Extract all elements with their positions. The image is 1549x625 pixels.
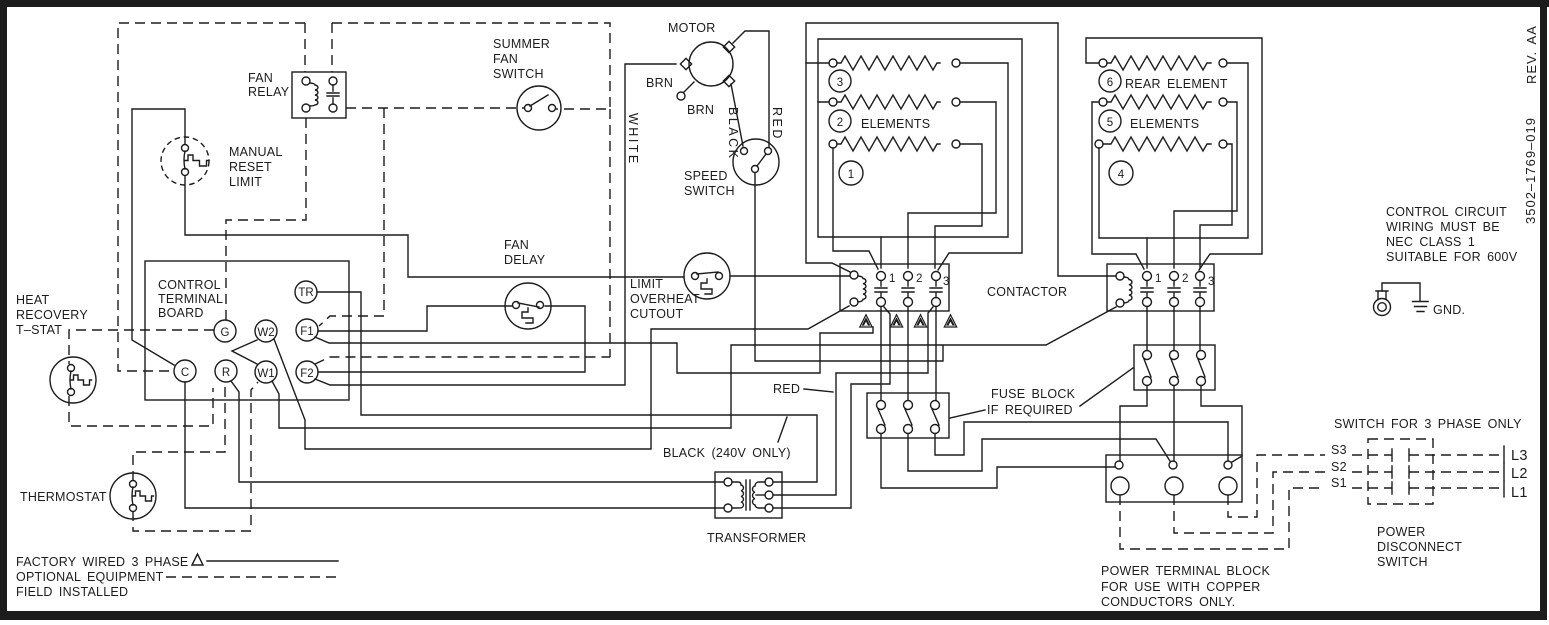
symbol factory wired triangles pole 2 (890, 315, 902, 327)
wire element 3 left stub (806, 62, 829, 64)
svg-text:RED: RED (773, 382, 800, 396)
svg-text:3502–1769–019: 3502–1769–019 (1523, 117, 1538, 224)
wire F2 lower WHITE riser to motor (315, 64, 676, 385)
wire F1 to fan delay left contact (318, 306, 512, 331)
svg-text:R: R (222, 367, 230, 379)
wire dashed power terminal 1 to S1 (1120, 488, 1392, 549)
svg-text:5: 5 (1107, 117, 1113, 129)
legend OPTIONAL EQUIPMENT (16, 570, 338, 584)
wire dashed power terminal 2 to S2 (1174, 472, 1392, 533)
svg-text:2: 2 (837, 117, 843, 129)
transformer T1 (707, 472, 806, 545)
label RED with leader (773, 382, 833, 396)
svg-text:F1: F1 (300, 326, 313, 338)
svg-text:TR: TR (298, 287, 313, 299)
svg-text:RED: RED (770, 107, 784, 141)
svg-text:SWITCH: SWITCH (493, 67, 544, 81)
wire W2 to contactor 1 coil bottom (274, 306, 849, 449)
terminal W2 (255, 320, 277, 342)
wire dashed switch to L3 (1409, 454, 1504, 456)
label element 1 (839, 161, 863, 185)
wire element 5 right to contactor 2 pole 2 (1174, 102, 1237, 268)
wire dashed switch to L1 (1409, 487, 1504, 489)
svg-text:SWITCH: SWITCH (684, 184, 735, 198)
svg-text:LIMIT: LIMIT (229, 175, 262, 189)
svg-text:1: 1 (889, 273, 895, 285)
thermostat HEAT RECOVERY T-STAT (16, 293, 96, 403)
label element 6 (1099, 70, 1121, 92)
svg-text:ELEMENTS: ELEMENTS (1130, 117, 1199, 131)
svg-text:CONTACTOR: CONTACTOR (987, 285, 1067, 299)
svg-text:2: 2 (1182, 273, 1188, 285)
svg-text:OVERHEAT: OVERHEAT (630, 292, 700, 306)
svg-text:WHITE: WHITE (626, 113, 640, 166)
svg-text:FOR USE WITH COPPER: FOR USE WITH COPPER (1101, 580, 1260, 594)
svg-text:CONTROL: CONTROL (158, 278, 221, 292)
svg-text:F2: F2 (300, 368, 313, 380)
wire element 4 right to contactor 2 pole 3 (1200, 144, 1232, 268)
svg-text:BRN: BRN (646, 76, 673, 90)
svg-text:GND.: GND. (1433, 303, 1465, 317)
svg-text:MANUAL: MANUAL (229, 145, 283, 159)
terminal F1 (296, 319, 318, 341)
svg-text:HEAT: HEAT (16, 293, 50, 307)
wire contactor 2 pole 3 to fuse block FB2 (1199, 307, 1201, 350)
wire contactor 1 pole 3 to fuse block FB1 (935, 307, 937, 400)
wire fuse block FB2 pole 2 to power terminal 2 (1173, 386, 1175, 461)
terminal G (214, 320, 236, 342)
wire fuse 3 to power terminal 3 (935, 422, 1228, 461)
svg-text:3: 3 (1208, 276, 1214, 288)
wire dashed F2 to summer fan switch rail (315, 357, 610, 364)
svg-text:CONTROL CIRCUIT: CONTROL CIRCUIT (1386, 205, 1507, 219)
wire dashed thermostat to terminal W1 (133, 382, 258, 531)
wire fuse block FB2 pole 3 to power terminal 3 (1201, 386, 1242, 462)
label FUSE BLOCK IF REQUIRED with leaders (950, 368, 1133, 418)
svg-text:2: 2 (916, 273, 922, 285)
wire TR to transformer secondary top via BLACK row (317, 292, 817, 482)
wire W1 to contactor 2 coil bottom (272, 307, 1116, 428)
svg-text:W2: W2 (257, 327, 274, 339)
wire F2 to fan delay right contact (318, 306, 585, 372)
wire fuse 1 to power terminal 1 (881, 434, 1115, 488)
wire element 2 left to pole 1 row (818, 63, 1008, 237)
terminal R (215, 360, 237, 382)
svg-text:SUITABLE FOR 600V: SUITABLE FOR 600V (1386, 250, 1518, 264)
wire manual reset limit top loop (132, 109, 185, 365)
svg-text:L1: L1 (1511, 485, 1528, 501)
wire element bank 1 outer loop to contactor coils (806, 23, 1116, 276)
resistor element 3 (829, 56, 960, 70)
svg-text:SWITCH: SWITCH (1377, 555, 1428, 569)
svg-text:TRANSFORMER: TRANSFORMER (707, 531, 806, 545)
svg-text:L2: L2 (1511, 466, 1528, 482)
wire element 6 loop to contactor 2 pole 3 (1086, 38, 1262, 270)
wire contactor 2 pole 1 to fuse block FB2 (1146, 307, 1148, 350)
wire dashed thermostat to terminal R (133, 382, 225, 481)
wire element bank 1 second loop to contactor 1 pole 2 (818, 39, 1022, 270)
svg-text:RECOVERY: RECOVERY (16, 308, 88, 322)
svg-text:WIRING MUST BE: WIRING MUST BE (1386, 220, 1500, 234)
wire dashed power terminal 3 to S3 (1228, 455, 1392, 517)
wire dashed heat recovery to terminal R (69, 388, 213, 426)
wire F1 lower to contactor 1 pole 1 bottom (315, 327, 873, 373)
wire dashed branch to terminal F1 (319, 108, 384, 326)
svg-text:S3: S3 (1331, 443, 1347, 457)
wire dashed switch to L2 (1409, 471, 1504, 473)
terminal W1 (255, 361, 277, 383)
svg-text:MOTOR: MOTOR (668, 21, 716, 35)
wire transformer secondary bottom to contactor 1 pole 1 (774, 307, 890, 508)
label element 2 (829, 110, 851, 132)
svg-text:SWITCH FOR 3 PHASE ONLY: SWITCH FOR 3 PHASE ONLY (1334, 417, 1522, 431)
resistor element 5 (1099, 95, 1227, 109)
wire R to transformer primary top (231, 381, 724, 482)
svg-text:OPTIONAL EQUIPMENT: OPTIONAL EQUIPMENT (16, 570, 164, 584)
contactor K2 (840, 264, 949, 311)
switch S2 MANUAL RESET LIMIT (161, 137, 283, 189)
ground symbol GND (1413, 302, 1466, 318)
wire BRN pigtail (646, 76, 714, 117)
wire element 1 left to contactor 1 pole 1 (833, 148, 878, 269)
svg-text:SPEED: SPEED (684, 169, 728, 183)
motor M1 (668, 21, 735, 87)
terminal L3 (1504, 446, 1528, 464)
relay K1 FAN RELAY (248, 71, 346, 118)
wire dashed fan relay bottom-right to summer fan switch left (346, 107, 524, 109)
terminal L2 (1504, 464, 1528, 482)
svg-text:FACTORY WIRED 3 PHASE: FACTORY WIRED 3 PHASE (16, 555, 189, 569)
wire dashed rail fan relay top-right to summer fan switch right (332, 23, 610, 109)
svg-text:FAN: FAN (493, 52, 518, 66)
terminal C (174, 360, 196, 382)
wire contactor 2 pole 1 riser (1146, 238, 1148, 268)
wire dashed riser to fan relay top-left pin (304, 23, 306, 72)
label element 5 (1099, 110, 1121, 132)
wire RED motor to speed switch (733, 31, 769, 147)
resistor element 4 (1095, 137, 1227, 151)
svg-text:G: G (221, 327, 230, 339)
svg-text:NEC CLASS 1: NEC CLASS 1 (1386, 235, 1475, 249)
wire element 1 right to contactor 1 pole 3 (935, 144, 982, 268)
thermostat THERMOSTAT (20, 473, 156, 519)
wire C to transformer primary bottom (185, 382, 724, 508)
svg-text:RESET: RESET (229, 160, 272, 174)
wire contactor 1 pole 1 riser (880, 237, 882, 268)
svg-text:CONDUCTORS ONLY.: CONDUCTORS ONLY. (1101, 595, 1235, 609)
wire contactor 2 pole 2 to fuse block FB2 (1173, 307, 1175, 350)
wire dashed riser summer fan switch rail down to F2 (609, 109, 611, 357)
label BLACK (240V ONLY) with leader (663, 417, 791, 460)
wire RED transformer tap to contactor 1 pole 3 (774, 307, 933, 495)
svg-text:3: 3 (837, 77, 843, 89)
resistor element 6 (1099, 56, 1227, 70)
svg-text:1: 1 (1155, 273, 1161, 285)
svg-text:1: 1 (848, 169, 854, 181)
switch S1 SUMMER FAN SWITCH (493, 37, 561, 130)
terminal L1 (1504, 481, 1528, 501)
wire dashed heat recovery to terminal G (69, 330, 214, 364)
svg-text:BLACK (240V ONLY): BLACK (240V ONLY) (663, 446, 791, 460)
power terminal block TB1 (1106, 455, 1242, 502)
switch S4 FAN DELAY (504, 238, 551, 329)
svg-text:FUSE BLOCK: FUSE BLOCK (991, 387, 1076, 401)
svg-text:DISCONNECT: DISCONNECT (1377, 540, 1462, 554)
wire element 5 left to contactor 2 pole 1 (1092, 102, 1144, 269)
legend FACTORY WIRED 3 PHASE (16, 554, 338, 569)
label element 3 (829, 70, 851, 92)
svg-text:FAN: FAN (504, 238, 529, 252)
wire BLACK motor to speed switch (731, 84, 743, 146)
wire manual reset limit to limit overheat cutout (185, 176, 684, 277)
svg-text:SUMMER: SUMMER (493, 37, 550, 51)
svg-text:FAN: FAN (248, 71, 273, 85)
wire dashed riser to fan relay top-right pin (331, 23, 333, 72)
terminal board CONTROL TERMINAL BOARD (145, 261, 349, 400)
wire element 2 right to contactor 1 pole 3 (908, 102, 996, 268)
contactor K3 (1107, 264, 1214, 311)
wire limit cutout to contactor 1 coil top (730, 275, 850, 277)
label CONTROL CIRCUIT note (1386, 205, 1518, 264)
wire fuse 2 to power terminal 2 (908, 434, 1170, 471)
symbol factory wired triangles pole 1 (860, 315, 872, 327)
svg-text:IF REQUIRED: IF REQUIRED (987, 403, 1073, 417)
svg-text:BLACK: BLACK (726, 107, 740, 161)
svg-text:RELAY: RELAY (248, 85, 290, 99)
fuse block FB1 (867, 393, 949, 438)
resistor element 1 (829, 137, 960, 151)
svg-text:S2: S2 (1331, 460, 1347, 474)
wire speed switch common to W1 row (755, 173, 943, 361)
label POWER TERMINAL BLOCK (1101, 564, 1270, 609)
ground lug (1374, 283, 1421, 316)
svg-text:POWER: POWER (1377, 525, 1425, 539)
wire contactor 1 pole 1 to fuse block FB1 (880, 307, 882, 400)
svg-text:TERMINAL: TERMINAL (158, 292, 223, 306)
svg-text:W1: W1 (257, 368, 274, 380)
svg-text:S1: S1 (1331, 476, 1347, 490)
symbol factory wired triangles pole 3 (914, 315, 926, 327)
wire element 4 left to pole 1 row (1099, 63, 1248, 238)
svg-text:LIMIT: LIMIT (630, 277, 663, 291)
wire jumper W2 to W1 (232, 340, 257, 364)
switch S3 SPEED SWITCH (684, 139, 779, 198)
wire contactor 1 pole 2 to fuse block FB1 (907, 307, 909, 400)
wire dashed rail from fan relay top-left to terminal C (118, 23, 305, 371)
svg-text:4: 4 (1118, 169, 1125, 181)
svg-text:BRN: BRN (687, 103, 714, 117)
svg-text:REV. AA: REV. AA (1524, 25, 1539, 84)
svg-text:FIELD INSTALLED: FIELD INSTALLED (16, 585, 128, 599)
svg-text:3: 3 (943, 276, 949, 288)
svg-text:BOARD: BOARD (158, 306, 204, 320)
svg-text:DELAY: DELAY (504, 253, 546, 267)
svg-text:C: C (181, 367, 189, 379)
wire fuse block FB2 pole 1 to power terminal 1 (1120, 386, 1147, 461)
svg-text:T–STAT: T–STAT (16, 323, 62, 337)
svg-text:THERMOSTAT: THERMOSTAT (20, 490, 107, 504)
terminal F2 (296, 361, 318, 383)
label element 4 (1109, 161, 1133, 185)
svg-text:6: 6 (1107, 77, 1113, 89)
fuse block FB2 (1134, 345, 1215, 390)
svg-text:REAR ELEMENT: REAR ELEMENT (1125, 77, 1228, 91)
switch S5 LIMIT OVERHEAT CUTOUT (630, 253, 730, 321)
svg-text:POWER TERMINAL BLOCK: POWER TERMINAL BLOCK (1101, 564, 1270, 578)
disconnect switch SW1 POWER DISCONNECT SWITCH (1368, 439, 1462, 569)
terminal TR (295, 281, 317, 303)
svg-text:ELEMENTS: ELEMENTS (861, 117, 930, 131)
svg-text:L3: L3 (1511, 448, 1528, 464)
wire dashed fan relay bottom-left to terminal G (226, 118, 306, 320)
resistor element 2 (829, 95, 960, 109)
svg-text:CUTOUT: CUTOUT (630, 307, 683, 321)
symbol factory wired triangles pole 4 (944, 315, 956, 327)
